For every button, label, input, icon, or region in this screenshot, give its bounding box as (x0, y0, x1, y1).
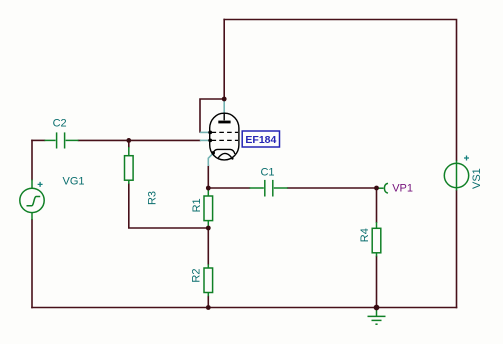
svg-text:R4: R4 (359, 228, 371, 242)
svg-text:EF184: EF184 (245, 134, 276, 146)
svg-text:R3: R3 (147, 191, 159, 205)
svg-text:C2: C2 (53, 118, 67, 130)
svg-text:R1: R1 (191, 198, 203, 212)
svg-text:VP1: VP1 (392, 183, 413, 195)
svg-text:R2: R2 (190, 269, 202, 283)
svg-text:C1: C1 (260, 167, 274, 179)
svg-text:VG1: VG1 (63, 175, 85, 187)
svg-text:VS1: VS1 (471, 168, 483, 189)
